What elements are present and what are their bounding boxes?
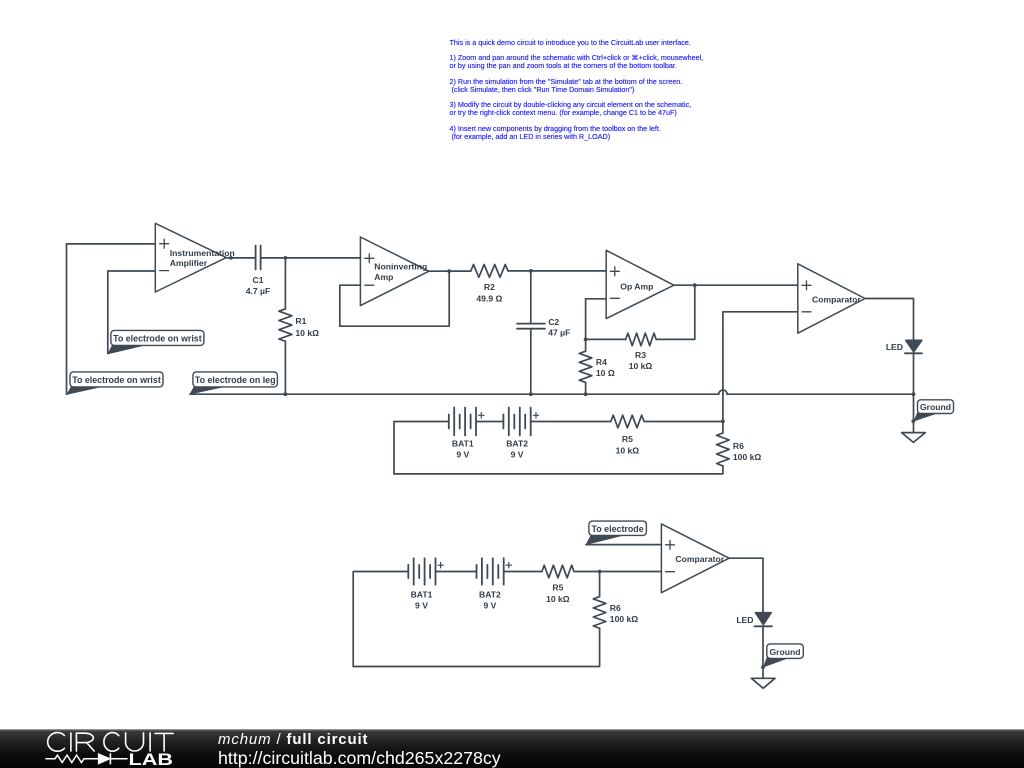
node rail C2 <box>529 392 533 396</box>
circuit 2: flag To electrode <box>586 521 647 545</box>
wire LED to ground rail <box>913 353 915 394</box>
wire R4 to ground rail <box>585 382 587 394</box>
svg-text:10 kΩ: 10 kΩ <box>616 446 640 456</box>
svg-text:To electrode on wrist: To electrode on wrist <box>72 375 161 385</box>
svg-text:Instrumentation: Instrumentation <box>170 248 235 258</box>
svg-text:Noninverting: Noninverting <box>374 261 427 271</box>
battery BAT1 9V <box>449 408 484 460</box>
svg-text:LED: LED <box>736 615 753 625</box>
wire rail to ground symbol <box>913 394 915 432</box>
wire R5 to R6 node <box>644 421 723 423</box>
svg-text:47 µF: 47 µF <box>548 328 570 338</box>
wire U2 feedback loop <box>340 271 449 326</box>
svg-text:To electrode on wrist: To electrode on wrist <box>113 334 202 344</box>
node R5/R6 junction <box>721 419 725 423</box>
node rail LED <box>912 392 916 396</box>
resistor R1 10k <box>279 309 319 341</box>
svg-text:9 V: 9 V <box>456 450 469 460</box>
circuit 2: wire BAT2 to R5 <box>504 571 542 573</box>
svg-text:R6: R6 <box>733 441 744 451</box>
flag To electrode on leg <box>189 372 277 395</box>
node B junction R2/C2 <box>529 269 533 273</box>
node U2 output junction <box>447 269 451 273</box>
svg-text:BAT1: BAT1 <box>411 589 433 599</box>
wire BAT1 to BAT2 <box>476 421 503 423</box>
circuit 2: wire battery loop left side <box>353 572 408 667</box>
wire R3 to inverting node <box>586 338 626 340</box>
svg-text:9 V: 9 V <box>415 600 428 610</box>
svg-text:Amplifier: Amplifier <box>170 258 208 268</box>
wire C2 to ground rail <box>530 329 532 395</box>
circuit 2: wire R5 to comparator - input <box>574 571 661 573</box>
node rail R1 <box>284 392 288 396</box>
svg-text:R1: R1 <box>295 316 306 326</box>
wire BAT2 to R5 <box>531 421 611 423</box>
capacitor C1 4.7uF <box>246 246 271 296</box>
resistor R3 10k feedback <box>626 333 657 371</box>
svg-text:LAB: LAB <box>129 751 174 768</box>
svg-text:R5: R5 <box>552 583 563 593</box>
logo doodle diode <box>99 754 110 764</box>
circuit 2: op-amp U5 Comparator <box>661 524 729 593</box>
resistor R5 10k <box>611 415 644 455</box>
svg-text:R6: R6 <box>610 603 621 613</box>
wire U3 output down to R3 <box>656 285 695 339</box>
svg-text:Amp: Amp <box>374 272 393 282</box>
resistor R4 10 ohm <box>579 351 615 382</box>
circuit 2: node ground flag attach <box>761 665 765 669</box>
wire from instrumentation amplifier + input to wrist electrode <box>67 244 156 394</box>
svg-text:R3: R3 <box>635 350 646 360</box>
svg-text:R4: R4 <box>596 357 607 367</box>
op-amp U1 Instrumentation Amplifier <box>155 223 234 292</box>
svg-text:9 V: 9 V <box>511 450 524 460</box>
svg-text:Comparator: Comparator <box>675 554 724 564</box>
svg-text:4.7 µF: 4.7 µF <box>246 286 271 296</box>
svg-text:100 kΩ: 100 kΩ <box>733 452 762 462</box>
flag To electrode on wrist (upper) <box>107 330 204 354</box>
svg-text:Op Amp: Op Amp <box>620 281 653 291</box>
logo doodle resistor <box>55 755 84 762</box>
wire U1 output to C1 <box>226 257 255 259</box>
wire U4 - input down to R5/R6 node <box>723 312 798 421</box>
svg-text:10 kΩ: 10 kΩ <box>295 328 319 338</box>
svg-text:BAT2: BAT2 <box>479 589 501 599</box>
wire node down to R4 <box>585 339 587 351</box>
circuit 2: wire comparator output to LED <box>729 558 763 613</box>
node at U1 output <box>229 256 233 260</box>
svg-text:C2: C2 <box>548 317 559 327</box>
flag To electrode on wrist (lower) <box>66 372 163 395</box>
logo letter I <box>149 733 151 751</box>
logo doodle wire to diode <box>84 758 99 760</box>
node R3/R4 junction <box>584 338 588 342</box>
svg-text:100 kΩ: 100 kΩ <box>610 614 639 624</box>
svg-text:Ground: Ground <box>769 647 800 657</box>
svg-text:BAT1: BAT1 <box>452 439 474 449</box>
node U3 output junction <box>693 283 697 287</box>
node ground flag attach <box>911 419 915 423</box>
svg-text:To electrode on leg: To electrode on leg <box>195 375 276 385</box>
svg-text:C1: C1 <box>253 275 264 285</box>
svg-text:R2: R2 <box>484 282 495 292</box>
LED D1 <box>886 340 922 353</box>
wire battery loop left side <box>394 422 449 474</box>
resistor R2 49.9 ohm <box>471 265 508 304</box>
op-amp U4 Comparator <box>798 264 865 333</box>
wire R6 to battery loop bottom <box>394 466 723 474</box>
circuit 2: wire R6 to loop bottom <box>353 628 599 666</box>
svg-text:9 V: 9 V <box>483 600 496 610</box>
logo doodle wire <box>46 758 55 760</box>
circuit 2: wire LED to ground <box>762 626 764 678</box>
wire R2 to op amp + input <box>508 270 606 272</box>
logo letter I <box>70 733 72 751</box>
logo letter U <box>126 733 144 751</box>
circuit 2: battery BAT1 9V <box>408 558 443 610</box>
node rail R4 <box>584 392 588 396</box>
wire U4 output to LED <box>865 299 914 341</box>
logo letter T <box>155 733 173 751</box>
wire U3 output <box>674 284 798 286</box>
circuit 2: LED D2 <box>736 613 772 627</box>
circuit 2: ground symbol <box>751 678 775 688</box>
svg-text:BAT2: BAT2 <box>506 439 528 449</box>
logo letter C <box>48 733 65 752</box>
ground symbol main <box>902 433 926 443</box>
op-amp U3 Op Amp <box>606 250 674 318</box>
svg-text:Ground: Ground <box>920 402 951 412</box>
svg-text:10 Ω: 10 Ω <box>596 368 615 378</box>
svg-text:10 kΩ: 10 kΩ <box>546 594 570 604</box>
wire C1 to node A <box>261 257 361 259</box>
circuit 2: resistor R5 10k <box>542 565 574 604</box>
circuit 2: battery BAT2 9V <box>477 558 512 610</box>
battery BAT2 9V <box>503 408 538 460</box>
wire from instrumentation amplifier - input to wrist electrode <box>108 271 156 354</box>
svg-text:LED: LED <box>886 342 903 352</box>
svg-text:To electrode: To electrode <box>592 524 644 534</box>
svg-text:49.9 Ω: 49.9 Ω <box>476 294 502 304</box>
logo doodle wire to LAB <box>110 758 127 760</box>
wire U3 - input to R3/R4 node <box>586 299 607 340</box>
op-amp U2 Noninverting Amp <box>360 237 429 306</box>
svg-text:10 kΩ: 10 kΩ <box>629 361 653 371</box>
wire R1 to ground rail <box>284 341 286 394</box>
svg-text:R5: R5 <box>622 434 633 444</box>
svg-text:Comparator: Comparator <box>812 294 861 304</box>
wire node down to R6 <box>722 421 724 433</box>
circuit 2: wire node down to R6 <box>599 572 601 597</box>
circuit 2: resistor R6 100k <box>593 597 638 629</box>
ground rail wire with hop <box>190 390 914 394</box>
wire node A down to R1 <box>284 258 286 309</box>
wire node B down to C2 <box>530 271 532 324</box>
capacitor C2 47uF <box>517 317 570 338</box>
circuit 2: flag Ground <box>763 644 803 668</box>
circuit 2: wire BAT1 to BAT2 <box>436 571 477 573</box>
flag Ground main <box>913 400 953 422</box>
logo letter R <box>76 733 94 751</box>
logo letter C <box>104 733 119 752</box>
resistor R6 100k <box>717 433 762 466</box>
wire U2 output <box>429 270 471 272</box>
node A junction <box>284 256 288 260</box>
circuit 2: wire comparator + input to electrode flag <box>586 544 661 546</box>
circuit 2: node R5/R6 junction <box>598 570 602 574</box>
